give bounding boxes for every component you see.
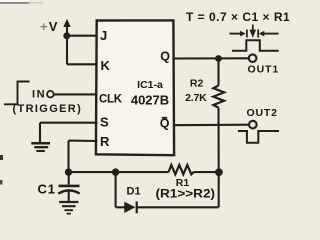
svg-text:Q: Q [160,49,170,63]
svg-text:+V: +V [40,19,59,34]
svg-text:K: K [101,58,111,73]
svg-text:2.7K: 2.7K [185,92,207,104]
svg-text:J: J [100,28,107,43]
svg-text:D1: D1 [127,186,141,198]
svg-text:CLK: CLK [99,93,123,105]
svg-text:OUT1: OUT1 [248,64,280,76]
svg-text:IN: IN [32,88,46,100]
svg-text:IC1-a: IC1-a [137,79,163,91]
svg-text:(TRIGGER): (TRIGGER) [13,103,83,115]
svg-text:Q: Q [160,117,170,131]
svg-text:R2: R2 [190,77,204,89]
svg-text:S: S [100,115,109,130]
svg-text:R: R [100,134,110,149]
svg-text:C1: C1 [38,182,56,197]
svg-text:T = 0.7 × C1 × R1: T = 0.7 × C1 × R1 [186,10,290,24]
svg-text:OUT2: OUT2 [247,107,278,119]
svg-text:4027B: 4027B [131,93,169,108]
svg-text:R1: R1 [176,177,190,189]
svg-text:(R1>>R2): (R1>>R2) [156,189,216,201]
